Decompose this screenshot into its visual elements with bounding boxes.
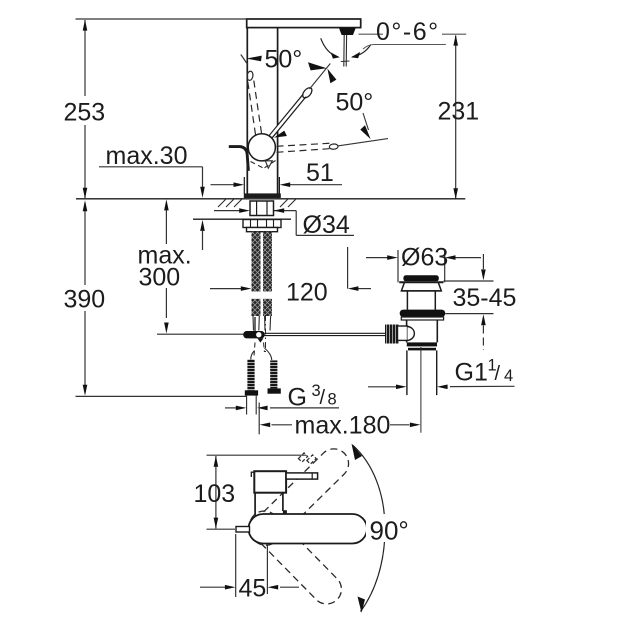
swivel arc 0-6 degrees	[321, 38, 338, 57]
dim G 3/8	[225, 407, 339, 409]
drain center line	[420, 347, 422, 433]
extension line from dashed lever	[339, 139, 389, 146]
dashes below fitting	[254, 343, 265, 357]
tee ball housing	[408, 327, 415, 341]
dim G1 1/4	[368, 385, 515, 388]
dim max.180	[259, 403, 409, 435]
svg-text:103: 103	[194, 480, 236, 508]
dim max.300	[165, 209, 167, 318]
svg-text:/: /	[495, 363, 501, 385]
tee block	[398, 326, 408, 340]
top view: dashed swung spout upper	[245, 443, 355, 552]
hose tails to screws	[251, 348, 272, 360]
svg-text:390: 390	[64, 286, 106, 314]
flexible hoses lower	[252, 299, 261, 316]
hose wall lines to fitting	[253, 316, 271, 331]
dim max.30	[99, 167, 203, 250]
rod fitting	[243, 331, 265, 338]
top view: body corner tick	[251, 472, 254, 477]
svg-text:4: 4	[504, 367, 513, 385]
svg-text:50°: 50°	[265, 46, 303, 74]
drain O-ring	[400, 310, 446, 317]
lever handle dashed (down-right position)	[277, 143, 332, 152]
dim Ø63	[366, 257, 481, 259]
lever hook handle (closed position)	[229, 147, 249, 171]
drain tailpipe	[407, 350, 437, 395]
svg-text:8: 8	[328, 391, 337, 409]
countertop hatching	[218, 199, 296, 207]
dim arc 50 degrees (second) arrowheads	[327, 69, 336, 84]
top view: aerator nub	[236, 527, 250, 533]
svg-text:45: 45	[239, 575, 267, 603]
water stream lines	[341, 35, 350, 67]
center line dash-dot	[265, 315, 267, 352]
svg-text:G: G	[288, 384, 307, 412]
top view: neck column	[255, 493, 283, 516]
flexible hoses upper	[252, 232, 261, 292]
svg-text:Ø63: Ø63	[401, 244, 448, 272]
extension line from arc to 231 dim	[363, 45, 446, 50]
dim arc 50 degrees (first) arrowheads	[246, 56, 261, 62]
svg-text:300: 300	[139, 264, 181, 292]
svg-text:0°-6°: 0°-6°	[376, 18, 440, 46]
svg-text:51: 51	[306, 159, 334, 187]
dim 35-45	[444, 254, 494, 350]
rod vertical upper	[254, 317, 256, 332]
lever handle solid (up-right position)	[270, 64, 330, 138]
top view: body square	[254, 471, 286, 493]
leader line 0-6 degrees	[359, 33, 467, 35]
drain waste top rim extension lines	[398, 250, 445, 282]
base plate	[244, 193, 281, 198]
spout bar (faucet top horizontal spout)	[247, 19, 361, 28]
dim 390	[76, 203, 247, 396]
svg-text:231: 231	[438, 98, 480, 126]
svg-text:253: 253	[64, 99, 106, 127]
screw left	[247, 360, 254, 391]
extension tick for dashed lever	[241, 55, 248, 65]
dim line 231	[455, 36, 457, 199]
dim Ø34 leader	[214, 211, 354, 236]
washer stack	[243, 220, 281, 232]
arrowhead at ball (dashed lever)	[274, 131, 287, 138]
svg-text:/: /	[320, 387, 326, 409]
svg-text:G1: G1	[455, 359, 488, 387]
svg-text:120: 120	[286, 279, 328, 307]
drain flange	[399, 282, 443, 310]
countertop lines	[76, 198, 465, 200]
knurled nut on rod tee	[385, 325, 399, 344]
dim 120	[210, 247, 371, 289]
top view: spout stadium	[249, 514, 368, 544]
pop-up rod horizontal	[157, 333, 244, 335]
dim 103	[207, 455, 307, 529]
svg-text:Ø34: Ø34	[303, 211, 350, 239]
dim 45	[200, 534, 299, 597]
dashed wedge under ball	[251, 161, 276, 169]
top view: lever bar	[286, 473, 318, 479]
drain lower bands	[407, 342, 437, 346]
dim line 253	[76, 19, 247, 198]
drain cap	[403, 275, 438, 281]
svg-text:50°: 50°	[336, 89, 374, 117]
dim 51	[211, 184, 343, 186]
svg-text:90°: 90°	[370, 516, 409, 546]
swivel arc 90 degrees	[352, 445, 385, 612]
drain body	[407, 320, 438, 342]
mounting shank nut	[250, 201, 274, 216]
svg-text:35-45: 35-45	[453, 284, 517, 312]
label 90 degrees	[366, 514, 411, 542]
svg-text:max.30: max.30	[106, 142, 188, 170]
lever pivot ball	[248, 134, 275, 161]
top view: dashed lever tips	[298, 453, 316, 464]
lever handle dashed (up-left position)	[248, 79, 262, 135]
screw right	[270, 360, 277, 388]
washer under O-ring	[401, 317, 443, 320]
svg-text:max.180: max.180	[295, 412, 391, 440]
top view: dashed swung spout lower	[243, 505, 347, 610]
aerator under spout end	[339, 28, 356, 35]
faucet body column	[244, 28, 279, 194]
